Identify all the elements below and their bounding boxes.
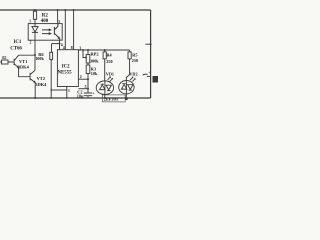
svg-text:CT66: CT66 bbox=[10, 47, 22, 52]
svg-text:R5: R5 bbox=[132, 52, 137, 57]
transistor photo inside IC1 bbox=[54, 24, 59, 41]
battery GB bbox=[147, 75, 151, 77]
svg-text:IC1: IC1 bbox=[14, 40, 22, 45]
transistor VT2 bbox=[30, 70, 35, 82]
svg-text:NE555: NE555 bbox=[58, 70, 73, 75]
wire down to pin5 node bbox=[87, 79, 89, 89]
wire pin5 stub bbox=[78, 88, 88, 90]
node right border tap bbox=[145, 43, 150, 45]
svg-text:2: 2 bbox=[80, 75, 82, 79]
wire NE555 pin8 from top rail bbox=[73, 10, 75, 50]
resistor R4 bbox=[104, 50, 106, 52]
wire VT2 emitter to ground rail bbox=[34, 83, 36, 98]
svg-text:5: 5 bbox=[85, 85, 87, 89]
svg-text:VT1: VT1 bbox=[19, 59, 27, 64]
label 2EF303 bbox=[102, 95, 125, 102]
resistor R5 bbox=[129, 50, 131, 52]
wire NE555 pin1 to ground bbox=[66, 87, 68, 99]
svg-text:5: 5 bbox=[58, 20, 60, 24]
svg-text:100k: 100k bbox=[35, 56, 44, 61]
svg-text:10k: 10k bbox=[91, 71, 98, 76]
op-amp IC2 NE555 box bbox=[57, 50, 78, 87]
resistor R6 bbox=[50, 52, 53, 59]
svg-text:+: + bbox=[148, 71, 150, 75]
svg-text:+: + bbox=[93, 91, 96, 96]
LED VD2 bicolor bbox=[119, 81, 134, 94]
wire VT1 emitter to VT2 base bbox=[19, 68, 30, 77]
svg-text:250: 250 bbox=[106, 59, 112, 64]
svg-text:R2: R2 bbox=[42, 14, 49, 19]
svg-text:VD2: VD2 bbox=[129, 72, 137, 77]
wire top rail bbox=[0, 9, 151, 11]
svg-text:IC2: IC2 bbox=[62, 65, 70, 70]
svg-text:3: 3 bbox=[79, 46, 81, 50]
wire NE555 pin4 from top rail bbox=[64, 10, 66, 50]
node junction top R2 bbox=[34, 9, 36, 11]
svg-text:300k: 300k bbox=[90, 58, 99, 63]
wire opto pin2 cathode down bbox=[34, 40, 36, 70]
op-amp optocoupler IC1 CT66 box bbox=[28, 24, 62, 41]
svg-text:R1: R1 bbox=[2, 56, 7, 60]
svg-text:3DK4: 3DK4 bbox=[18, 64, 30, 69]
resistor R1 bbox=[2, 60, 9, 64]
light arrows bbox=[42, 29, 51, 35]
wire pin2 stub bbox=[78, 78, 88, 80]
light arrows VD2 bbox=[130, 77, 135, 82]
resistor R3 bbox=[86, 65, 90, 74]
svg-text:2: 2 bbox=[30, 41, 32, 45]
svg-text:10μ: 10μ bbox=[77, 94, 84, 99]
svg-text:1: 1 bbox=[29, 20, 31, 24]
potentiometer RP2 bbox=[87, 50, 89, 55]
svg-text:R4: R4 bbox=[107, 52, 113, 57]
wire right border bbox=[150, 10, 152, 98]
diode LED inside IC1 bbox=[32, 24, 38, 41]
light arrows VD1 bbox=[108, 77, 113, 82]
wire R6 to pin1 bbox=[51, 89, 67, 91]
LED VD1 bicolor bbox=[96, 81, 113, 95]
svg-text:8: 8 bbox=[71, 46, 73, 50]
wire Vcc rail right of NE555 bbox=[78, 49, 129, 51]
wire opto emitter pin4 to NE555 reset line bbox=[52, 40, 60, 52]
resistor R2 bbox=[34, 10, 36, 11]
svg-text:VT2: VT2 bbox=[37, 76, 45, 81]
svg-text:2EF303: 2EF303 bbox=[104, 97, 118, 102]
svg-text:4: 4 bbox=[63, 46, 65, 50]
node VT1 collector junction bbox=[34, 54, 36, 56]
svg-text:RP2: RP2 bbox=[91, 52, 99, 57]
svg-text:3DK4: 3DK4 bbox=[35, 82, 47, 87]
transistor VT1 bbox=[8, 55, 35, 67]
svg-text:250: 250 bbox=[132, 58, 138, 63]
wire bottom rail bbox=[0, 97, 151, 99]
svg-text:VD1: VD1 bbox=[106, 72, 114, 77]
node emitter junction bbox=[59, 42, 61, 44]
svg-text:1: 1 bbox=[68, 89, 70, 93]
wire opto collector to top rail bbox=[57, 10, 59, 24]
svg-text:400: 400 bbox=[41, 19, 49, 24]
node junction collector bbox=[57, 9, 59, 11]
capacitor C2 bbox=[84, 89, 92, 98]
